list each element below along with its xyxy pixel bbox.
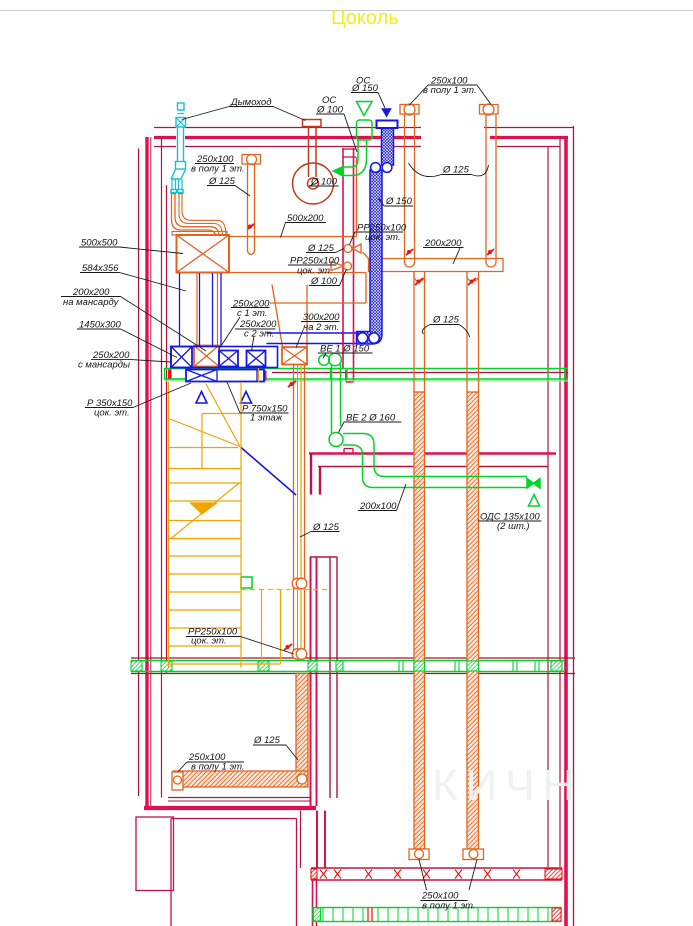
svg-text:Ø 125: Ø 125	[442, 165, 470, 176]
svg-text:с 2 эт.: с 2 эт.	[244, 329, 274, 340]
svg-text:ВЕ 1 Ø 150: ВЕ 1 Ø 150	[320, 344, 370, 355]
svg-text:на 2 эт.: на 2 эт.	[303, 322, 339, 333]
svg-text:Ø 150: Ø 150	[385, 196, 413, 207]
svg-text:цок. эт.: цок. эт.	[94, 408, 130, 419]
svg-text:(2 шт.): (2 шт.)	[497, 521, 530, 532]
svg-text:с мансарды: с мансарды	[78, 360, 130, 371]
svg-text:в полу 1 эт.: в полу 1 эт.	[422, 901, 476, 912]
svg-text:1450х300: 1450х300	[79, 320, 121, 331]
svg-text:Ø 100: Ø 100	[310, 177, 338, 188]
svg-text:Ø 125: Ø 125	[312, 522, 340, 533]
svg-text:Ø 125: Ø 125	[432, 315, 460, 326]
svg-text:Дымоход: Дымоход	[230, 97, 271, 108]
svg-text:584х356: 584х356	[82, 263, 119, 274]
svg-text:в полу 1 эт.: в полу 1 эт.	[191, 164, 245, 175]
svg-text:цок. эт.: цок. эт.	[297, 266, 333, 277]
svg-text:Ø 100: Ø 100	[316, 105, 344, 116]
svg-text:Цоколь: Цоколь	[331, 7, 399, 29]
svg-text:цок. эт.: цок. эт.	[191, 636, 227, 647]
svg-text:500х500: 500х500	[81, 238, 118, 249]
svg-text:цок. эт.: цок. эт.	[365, 232, 401, 243]
svg-text:500х200: 500х200	[287, 213, 324, 224]
svg-text:200х100: 200х100	[359, 501, 397, 512]
svg-text:Ø 125: Ø 125	[253, 735, 281, 746]
svg-text:Ø 125: Ø 125	[208, 176, 236, 187]
svg-text:в полу 1 эт.: в полу 1 эт.	[191, 762, 245, 773]
svg-text:Ø 125: Ø 125	[307, 243, 335, 254]
svg-text:на мансарду: на мансарду	[63, 297, 120, 308]
svg-text:Ø 150: Ø 150	[351, 83, 379, 94]
svg-text:200х200: 200х200	[424, 238, 462, 249]
svg-text:с 1 эт.: с 1 эт.	[237, 308, 267, 319]
svg-text:Ø 100: Ø 100	[310, 276, 338, 287]
svg-text:в полу 1 эт.: в полу 1 эт.	[423, 85, 477, 96]
svg-text:1 этаж: 1 этаж	[250, 413, 283, 424]
svg-text:КИЧН: КИЧН	[432, 761, 582, 810]
svg-text:ВЕ 2 Ø 160: ВЕ 2 Ø 160	[346, 413, 396, 424]
